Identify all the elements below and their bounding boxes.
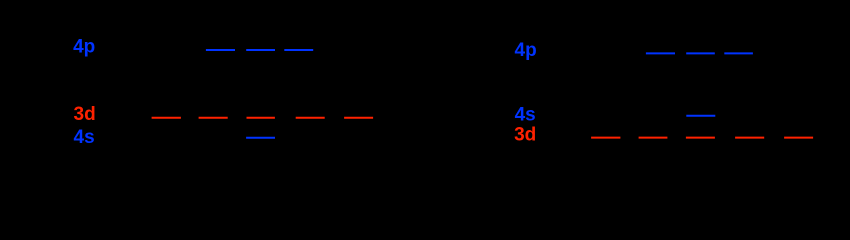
orbital level 3d right: dash 4 [735, 137, 764, 139]
orbital level 3d left: dash 4 [296, 117, 325, 119]
orbital level 4p left: dash 1 [206, 49, 235, 51]
orbital level 4p left: dash 2 [246, 49, 275, 51]
orbital level 3d left: dash 1 [152, 117, 181, 119]
orbital level 3d left: dash 2 [199, 117, 228, 119]
svg-text:4s: 4s [515, 104, 536, 125]
orbital level 4p right: dash 3 [724, 52, 753, 54]
orbital level 4s left: dash [246, 137, 275, 139]
orbital level 4p right: dash 2 [686, 52, 715, 54]
svg-text:4p: 4p [73, 37, 95, 58]
orbital level 3d left: dash 5 [344, 117, 373, 119]
svg-text:4s: 4s [74, 127, 95, 148]
svg-text:3d: 3d [74, 104, 96, 125]
orbital level 3d right: dash 5 [784, 137, 813, 139]
orbital level 3d left: dash 3 [247, 117, 275, 119]
orbital level 3d right: dash 3 [686, 137, 715, 139]
svg-text:4p: 4p [515, 40, 537, 61]
orbital level 3d right: dash 2 [639, 137, 668, 139]
orbital level 4p left: dash 3 [284, 49, 313, 51]
svg-text:3d: 3d [514, 124, 536, 145]
orbital level 3d right: dash 1 [591, 137, 620, 139]
orbital level 4s right: dash [686, 115, 715, 117]
orbital level 4p right: dash 1 [646, 52, 675, 54]
